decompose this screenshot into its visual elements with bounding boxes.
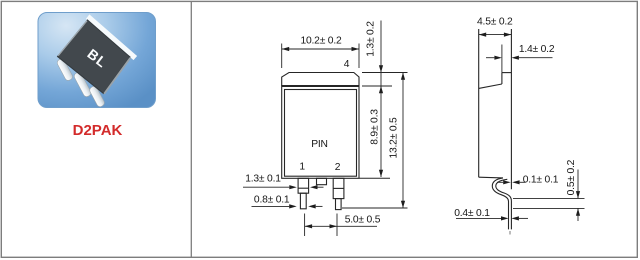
side tab top [502, 72, 512, 74]
dim 13.2 line [402, 73, 404, 209]
body bottom extension [360, 177, 391, 179]
dim 0.5 upper line [577, 170, 579, 199]
pin 3 cut stub [317, 178, 327, 184]
svg-text:10.2± 0.2: 10.2± 0.2 [300, 35, 342, 46]
svg-text:5.0± 0.5: 5.0± 0.5 [345, 214, 381, 225]
lead tip dash [509, 231, 511, 235]
side tab back edge [510, 29, 512, 189]
dim 0.5 lower line [577, 208, 579, 221]
body top extension [362, 85, 392, 87]
svg-text:2: 2 [335, 162, 341, 173]
dim 1.4 extension [501, 45, 503, 73]
dim 1.3tab line [380, 21, 382, 87]
svg-text:0.4± 0.1: 0.4± 0.1 [454, 208, 490, 219]
arrowhead 1.3tab down [379, 65, 383, 72]
tab/body separation line [282, 85, 359, 87]
side body front edge [478, 29, 480, 177]
svg-text:8.9± 0.3: 8.9± 0.3 [369, 109, 380, 145]
svg-text:0.1± 0.1: 0.1± 0.1 [523, 174, 559, 185]
cell divider [190, 1, 192, 257]
side view labels [454, 17, 577, 219]
side lead outer curve [492, 178, 508, 230]
svg-text:1.3± 0.2: 1.3± 0.2 [366, 21, 377, 57]
seating plane line lower [513, 207, 585, 209]
svg-text:PIN: PIN [311, 139, 328, 150]
pin 1 collar line [298, 187, 309, 189]
tab top extension [362, 72, 408, 74]
dim 8.9 line [380, 86, 382, 177]
lead 3 [89, 85, 106, 108]
dim 1.3 lead right tail [318, 186, 324, 188]
arrowheads 10.2 [282, 47, 290, 51]
arrowheads 1.4 [494, 56, 502, 60]
icon blue rounded background [38, 13, 156, 108]
lead 2 [73, 71, 92, 98]
svg-text:13.2± 0.5: 13.2± 0.5 [388, 117, 399, 159]
dim 5.0 line and shelf [305, 225, 377, 227]
pin 1 lead wide [298, 178, 309, 193]
body inner rectangle [285, 90, 357, 177]
dim 1.4 left tail [486, 57, 494, 59]
body outer rectangle [282, 86, 359, 178]
tab metal strip [86, 14, 137, 60]
svg-text:4: 4 [344, 59, 350, 70]
dim 0.8 leader [252, 205, 290, 207]
svg-text:1.3± 0.1: 1.3± 0.1 [245, 174, 281, 185]
package body [58, 20, 131, 94]
dim 10.2 line [282, 48, 359, 50]
dim 5.0 extension lines [304, 214, 306, 237]
svg-text:4.5± 0.2: 4.5± 0.2 [477, 17, 513, 28]
svg-text:1: 1 [299, 161, 305, 172]
top-left edge highlight [58, 21, 87, 56]
dim 0.4 right tail [519, 217, 528, 219]
svg-text:0.8± 0.1: 0.8± 0.1 [254, 194, 290, 205]
bottom-right edge highlight [104, 58, 130, 94]
arrowheads 0.4 [501, 216, 509, 220]
lead bottom extension [342, 207, 408, 209]
side tab front edge [501, 73, 503, 84]
arrowheads 4.5 [479, 33, 487, 37]
svg-text:D2PAK: D2PAK [73, 122, 123, 139]
side body top slant [479, 84, 502, 88]
dim 10.2 extension lines [281, 44, 283, 69]
arrowheads 0.5 [576, 191, 580, 198]
pin 2 lead narrow [336, 199, 342, 210]
product icon panel [38, 13, 156, 140]
dim 4.5 line [479, 34, 512, 36]
side body bottom [479, 176, 503, 179]
dim 0.4 leader [456, 217, 501, 219]
dim 0.1 leader [497, 181, 503, 183]
svg-text:1.4± 0.2: 1.4± 0.2 [519, 44, 555, 55]
arrowheads 0.1 [503, 180, 511, 184]
pin 2 lead wide [333, 178, 344, 198]
lead 1 [56, 58, 74, 82]
pin 1 lead narrow [300, 193, 306, 209]
arrowheads 1.3 lead [289, 185, 297, 189]
seating plane line upper [513, 197, 585, 199]
side lead inner curve [496, 179, 512, 229]
pin 2 collar line [333, 187, 344, 189]
front view tab [282, 73, 359, 87]
arrowheads 0.8 [289, 204, 297, 208]
dim 0.8 right tail [316, 205, 323, 207]
dim 1.4 right tail [519, 57, 553, 59]
arrowheads 13.2 [401, 73, 405, 80]
front view labels [245, 21, 399, 226]
dim 1.3 lead leader [243, 186, 289, 188]
arrowheads 8.9 [379, 86, 383, 93]
arrowheads 5.0 [305, 224, 313, 228]
svg-text:0.5± 0.2: 0.5± 0.2 [566, 159, 577, 195]
